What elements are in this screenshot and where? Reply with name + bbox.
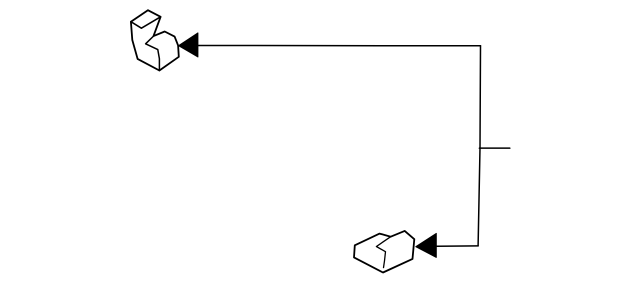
bracket part P1 (top-left) outline [131, 10, 179, 70]
leader line horizontal top [198, 45, 481, 47]
arrow 1 (points left at part P1) [179, 33, 198, 57]
bracket part P2 inner notch fold lines [376, 237, 390, 268]
leader line vertical right [478, 46, 480, 246]
bracket part P1 top-face parallelogram inner edges [131, 17, 161, 28]
bracket part P2 (bottom) outline [354, 231, 414, 273]
bracket part P1 inner notch fold lines [146, 36, 160, 70]
leader line horizontal bottom [436, 245, 478, 247]
arrow 2 (points left at part P2) [416, 233, 437, 257]
tick mark on vertical leader [479, 147, 509, 149]
